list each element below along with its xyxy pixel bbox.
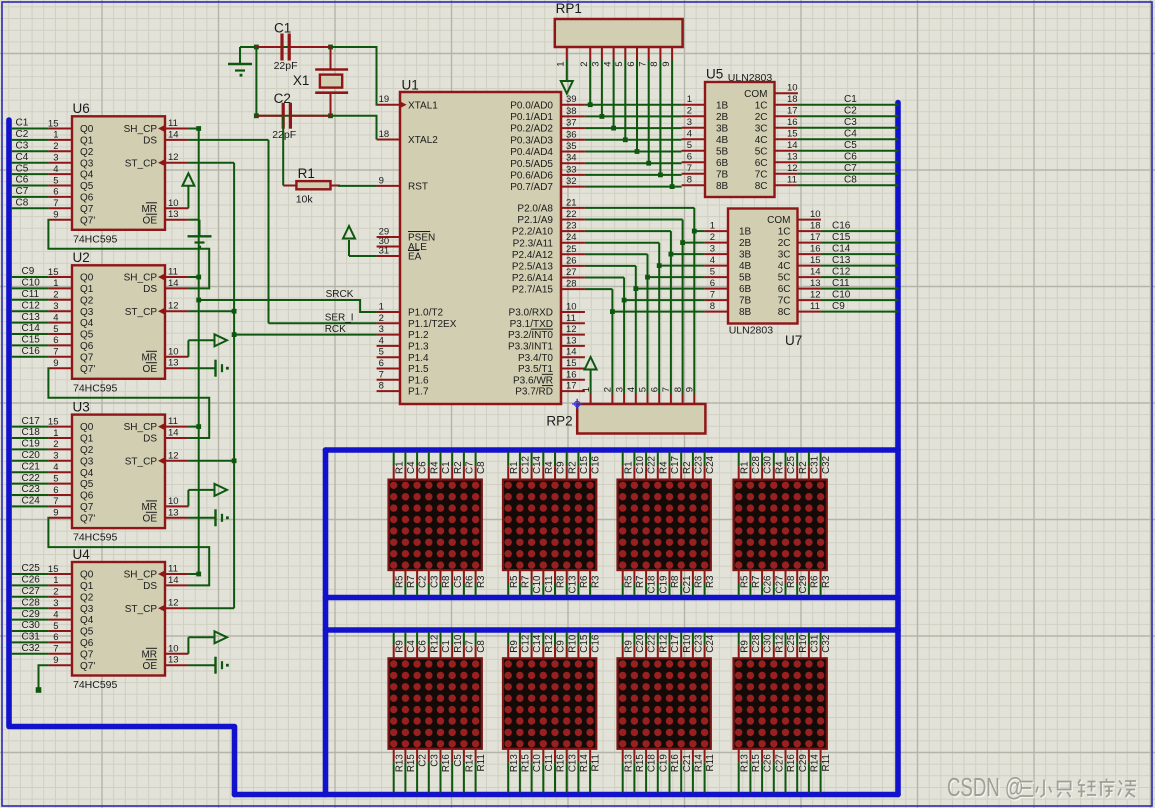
power arrow (VCC) at U2 MR (188, 334, 227, 357)
svg-text:C23: C23 (694, 455, 705, 474)
wire R5 bottom pin of DM1 (393, 570, 395, 595)
svg-text:MR: MR (141, 204, 157, 215)
svg-text:3: 3 (379, 324, 384, 335)
wire SER_I (U6 DS to U1 P1.1) (269, 322, 377, 324)
svg-text:R1: R1 (394, 461, 405, 474)
wire C17 top pin 5 of DM3 (669, 452, 671, 480)
wire C12 top pin 2 of DM6 (519, 632, 521, 658)
wire R1 to U1 RST pin9 (338, 185, 377, 187)
wire P2.1/A9 from U1 to RP2 vertical (585, 219, 683, 221)
svg-text:C22: C22 (647, 456, 658, 474)
wire R10 top pin 6 of DM6 (566, 632, 568, 658)
svg-text:C2: C2 (418, 576, 429, 589)
pin stub+number 18 (U7 1C) (798, 221, 821, 232)
svg-text:R9: R9 (509, 640, 520, 653)
svg-text:1B: 1B (716, 100, 729, 111)
svg-text:C9: C9 (22, 266, 35, 277)
svg-text:C11: C11 (22, 289, 40, 300)
svg-text:C22: C22 (647, 635, 658, 653)
watermark glyph 1 (1019, 782, 1034, 798)
svg-text:2B: 2B (716, 112, 729, 123)
wire RP1 pin2 vertical to P0.0 (589, 60, 591, 105)
pin stub+number 15 (U7 4C) (798, 255, 821, 266)
pin stub+number 37 (U1 P0.2) (561, 118, 585, 129)
wire RP2 pin8 vertical to P2.1 (682, 220, 684, 394)
wire C23 top pin 7 of DM3 (692, 452, 694, 480)
svg-text:C6: C6 (418, 461, 429, 474)
svg-text:R8: R8 (786, 575, 797, 588)
wire R16 bottom pin of DM7 (669, 749, 671, 793)
svg-text:P1.4: P1.4 (408, 353, 429, 364)
wire C31 top pin 7 of DM4 (808, 452, 810, 480)
svg-text:74HC595: 74HC595 (73, 382, 118, 394)
svg-text:C8: C8 (16, 198, 29, 209)
svg-text:17: 17 (810, 232, 821, 243)
svg-text:C6: C6 (16, 175, 29, 186)
wire C9 from U7 8C to right bus (821, 311, 896, 313)
svg-text:P0.3/AD3: P0.3/AD3 (510, 135, 553, 146)
svg-text:C28: C28 (22, 597, 41, 608)
svg-text:18: 18 (810, 221, 821, 232)
wire C5 from left bus to U6 pin 4 (12, 173, 72, 175)
pin stub+number 22 (U1 P2.1) (561, 209, 585, 220)
junction RP1 pin5 / P0.3 (623, 137, 628, 142)
svg-text:14: 14 (787, 140, 798, 151)
pin stub+number 8 (U7 8B) (705, 301, 728, 312)
LED dot matrix DM7 body (618, 658, 711, 749)
svg-text:Q7: Q7 (80, 502, 94, 513)
svg-text:4C: 4C (755, 135, 768, 146)
svg-text:11: 11 (168, 118, 178, 129)
wire C1 from U5 1C to right bus (798, 104, 896, 106)
svg-text:2: 2 (710, 232, 715, 243)
svg-text:MR: MR (141, 352, 157, 363)
svg-text:R8: R8 (441, 575, 452, 588)
svg-text:P1.6: P1.6 (408, 375, 429, 386)
wire U3 ST_CP to RCK vertical (188, 460, 234, 462)
ground at U4 OE (188, 657, 228, 674)
wire R13 bottom pin of DM5 (393, 749, 395, 793)
svg-text:C12: C12 (521, 635, 532, 653)
wire U4 Q7' stub end (39, 665, 49, 690)
svg-text:C10: C10 (635, 455, 646, 474)
pin stub+number 21 (U1 P2.0) (561, 197, 585, 208)
watermark glyph 6 (1118, 781, 1137, 799)
svg-text:14: 14 (168, 278, 179, 289)
wire R6 bottom pin of DM2 (577, 570, 579, 595)
svg-text:OE: OE (143, 215, 158, 226)
svg-text:Q7': Q7' (80, 661, 95, 672)
pin stub+number 33 (U1 P0.6) (561, 164, 585, 175)
wire C4 top pin 2 of DM1 (404, 452, 406, 480)
wire C24 top pin 8 of DM7 (704, 632, 706, 658)
svg-text:Q0: Q0 (80, 273, 94, 284)
wire C1-left to C2-left vertical (255, 47, 257, 116)
wire P0.0/AD0 from U1 to U5 1B (585, 104, 682, 106)
svg-text:Q1: Q1 (80, 136, 94, 147)
svg-text:74HC595: 74HC595 (73, 532, 118, 544)
pin stub+number 16 (U1 P3.6) (561, 369, 585, 380)
wire C24 top pin 8 of DM3 (704, 452, 706, 480)
wire U2 ST_CP to RCK vertical (188, 310, 234, 312)
svg-text:C24: C24 (705, 634, 716, 653)
wire C21 bottom pin of DM7 (680, 749, 682, 793)
svg-text:C32: C32 (821, 456, 832, 474)
pin stub+number 8 (RP1) (649, 47, 660, 67)
pin stub U6 pin 9 (49, 219, 72, 221)
svg-text:P2.0/A8: P2.0/A8 (517, 204, 553, 215)
pin stub+number 7 (U7 7B) (705, 290, 728, 301)
svg-text:XTAL2: XTAL2 (408, 135, 438, 146)
wire R11 bottom pin of DM7 (704, 749, 706, 793)
svg-text:15: 15 (48, 267, 59, 278)
svg-text:4: 4 (602, 62, 613, 67)
junction RP2 pin9 / U7 1B row (692, 229, 697, 234)
junction RP2 pin3 / U7 7B row (622, 298, 627, 303)
pin stub+number 17 (U1 P3.7) (561, 381, 585, 392)
wire C11 bottom pin of DM6 (542, 749, 544, 793)
svg-text:R16: R16 (441, 754, 452, 773)
pin stub+number 1 (RP2) (581, 387, 592, 404)
pin stub+number 15 (U1 P3.5) (561, 358, 585, 369)
svg-text:6: 6 (687, 152, 692, 163)
wire R9 top pin 1 of DM5 (393, 632, 395, 658)
svg-text:Q1: Q1 (80, 581, 94, 592)
wire C18 bottom pin of DM3 (645, 570, 647, 595)
svg-text:OE: OE (143, 661, 158, 672)
junction RP1 pin6 / P0.4 (635, 149, 640, 154)
wire C29 from left bus to U4 pin 4 (12, 619, 72, 621)
svg-text:R10: R10 (453, 634, 464, 653)
wire C30 top pin 3 of DM8 (761, 632, 763, 658)
pin stub+number 4 (U1 P1.3) (377, 335, 400, 346)
svg-text:3C: 3C (778, 250, 791, 261)
svg-text:74HC595: 74HC595 (73, 233, 118, 245)
svg-text:U3: U3 (73, 399, 90, 414)
power arrow (VCC) at U6 MR (182, 173, 194, 208)
svg-text:ST_CP: ST_CP (125, 604, 158, 615)
svg-text:15: 15 (787, 129, 798, 140)
svg-text:ULN2803: ULN2803 (728, 72, 773, 84)
svg-text:C11: C11 (832, 278, 850, 289)
svg-text:4: 4 (53, 312, 58, 323)
svg-text:7: 7 (379, 369, 384, 380)
svg-text:Q7: Q7 (80, 649, 94, 660)
pin stub+number 34 (U1 P0.5) (561, 153, 585, 164)
svg-text:C10: C10 (22, 278, 41, 289)
svg-text:7: 7 (638, 62, 649, 67)
wire RCK (ST_CP chain to U1 P1.2) (234, 334, 377, 336)
capacitor C1 (256, 34, 330, 61)
shift register U3 (74HC595) body (72, 415, 165, 528)
svg-text:7: 7 (53, 496, 58, 507)
pin stub+number 10 (U1 P3.0) (561, 302, 585, 313)
wire C21 from left bus to U3 pin 4 (12, 471, 72, 473)
svg-text:R16: R16 (556, 754, 567, 773)
wire C2 from U5 2C to right bus (798, 115, 896, 117)
svg-text:P2.6/A14: P2.6/A14 (512, 273, 554, 284)
wire U6 Q7' to U2 DS (cascade) (48, 220, 209, 289)
svg-text:R13: R13 (394, 754, 405, 773)
pin stub+number 38 (U1 P0.1) (561, 106, 585, 117)
svg-text:8: 8 (379, 381, 384, 392)
power arrow (VCC) at U3 MR (188, 484, 227, 507)
bus: bottom matrix block top edge (326, 627, 899, 633)
svg-text:C18: C18 (647, 575, 658, 594)
pin stub+number 10 (U7 COM) (798, 209, 821, 220)
svg-text:8C: 8C (778, 307, 791, 318)
svg-text:R16: R16 (670, 754, 681, 773)
wire P0.4/AD4 from U1 to U5 5B (585, 151, 682, 153)
svg-text:R4: R4 (429, 461, 440, 474)
svg-text:C23: C23 (22, 484, 41, 495)
wire R5 bottom pin of DM2 (507, 570, 509, 595)
svg-text:C18: C18 (647, 754, 658, 773)
svg-text:6: 6 (53, 187, 58, 198)
pin stub+number 6 (U7 6B) (705, 278, 728, 289)
pin stub+number 12 (U7 7C) (798, 290, 821, 301)
wire C7 from U5 7C to right bus (798, 173, 896, 175)
wire RP2 pin5 vertical to P2.4 (647, 254, 649, 393)
pin stub+number 14 (U4) (165, 575, 188, 586)
svg-text:R1: R1 (509, 461, 520, 474)
svg-text:7C: 7C (778, 296, 791, 307)
pin stub+number 18 (U5 1C) (775, 94, 798, 105)
svg-text:C26: C26 (763, 575, 774, 594)
svg-text:C25: C25 (786, 455, 797, 474)
svg-text:Q6: Q6 (80, 193, 94, 204)
wire R2 top pin 6 of DM3 (680, 452, 682, 480)
wire R11 bottom pin of DM6 (589, 749, 591, 793)
svg-text:9: 9 (661, 62, 672, 67)
wire R2 top pin 6 of DM4 (796, 452, 798, 480)
pin stub+number 17 (U7 2C) (798, 232, 821, 243)
svg-text:R14: R14 (579, 754, 590, 773)
svg-text:37: 37 (566, 118, 577, 129)
svg-text:32: 32 (566, 176, 577, 187)
svg-text:6: 6 (53, 335, 58, 346)
resistor pack RP2 body (577, 404, 705, 434)
svg-text:7: 7 (687, 163, 692, 174)
junction on RCK vertical at U2 (232, 309, 237, 314)
wire C15 from left bus to U2 pin 6 (12, 344, 72, 346)
svg-text:5: 5 (614, 62, 625, 67)
wire U6 SH_CP to SRCK vertical (188, 128, 198, 130)
pin stub+number 2 (RP1) (579, 47, 590, 67)
svg-text:C4: C4 (16, 152, 29, 163)
svg-text:5: 5 (53, 473, 58, 484)
svg-text:R1: R1 (739, 461, 750, 474)
wire C3 bottom pin of DM1 (428, 570, 430, 595)
svg-text:X1: X1 (293, 73, 310, 88)
svg-text:8: 8 (687, 175, 692, 186)
svg-text:12: 12 (566, 324, 577, 335)
wire C18 bottom pin of DM7 (645, 749, 647, 793)
svg-text:R10: R10 (682, 634, 693, 653)
wire U4 ST_CP to RCK vertical (188, 607, 234, 609)
wire C26 bottom pin of DM4 (761, 570, 763, 595)
svg-text:P3.4/T0: P3.4/T0 (518, 353, 553, 364)
svg-text:21: 21 (566, 197, 577, 208)
svg-text:Q0: Q0 (80, 422, 94, 433)
pin stub+number 3 (RP1) (591, 47, 602, 67)
svg-text:MR: MR (141, 502, 157, 513)
svg-text:38: 38 (566, 106, 577, 117)
junction RP2 pin4 / U7 6B row (633, 286, 638, 291)
junction RP1 pin4 / P0.2 (611, 126, 616, 131)
svg-text:13: 13 (168, 655, 179, 666)
bus: left column net bus (C1-C32 to shift registers) (9, 120, 235, 795)
svg-text:C25: C25 (22, 563, 41, 574)
wire R7 bottom pin of DM3 (633, 570, 635, 595)
svg-text:R9: R9 (623, 640, 634, 653)
power arrow (down) at RP1 pin 1 (561, 81, 573, 94)
driver U7 (ULN2803) body (728, 209, 798, 324)
svg-text:34: 34 (566, 153, 577, 164)
svg-text:Q0: Q0 (80, 124, 94, 135)
pin stub+number 29 (U1 left) (377, 227, 400, 238)
pin stub+number 13 (U6) (165, 209, 188, 220)
resistor R1 (283, 181, 340, 189)
wire R4 top pin 4 of DM2 (542, 452, 544, 480)
svg-text:C9: C9 (832, 301, 845, 312)
svg-text:P0.1/AD1: P0.1/AD1 (510, 112, 553, 123)
svg-text:C29: C29 (22, 609, 41, 620)
wire RP2 pin9 vertical to P2.0 (693, 208, 695, 393)
svg-text:14: 14 (810, 267, 821, 278)
pin stub+number 12 (U3) (165, 450, 188, 461)
svg-text:Q2: Q2 (80, 592, 94, 603)
svg-text:R15: R15 (751, 754, 762, 773)
wire C7 top pin 7 of DM5 (463, 632, 465, 658)
wire R16 bottom pin of DM5 (440, 749, 442, 793)
wire C6 top pin 3 of DM1 (416, 452, 418, 480)
svg-text:R15: R15 (406, 754, 417, 773)
pin stub+number 11 (U2) (165, 267, 188, 278)
wire C3 bottom pin of DM5 (428, 749, 430, 793)
svg-text:8C: 8C (755, 181, 768, 192)
svg-text:11: 11 (168, 416, 178, 427)
svg-text:10: 10 (566, 302, 577, 313)
wire R5 bottom pin of DM3 (622, 570, 624, 595)
wire C13 from U7 4C to right bus (821, 265, 896, 267)
wire C15 from U7 2C to right bus (821, 242, 896, 244)
svg-text:C10: C10 (532, 754, 543, 773)
svg-text:C10: C10 (832, 290, 851, 301)
wire C26 bottom pin of DM8 (761, 749, 763, 793)
terminal square at U4 Q7' wire end (36, 687, 42, 693)
svg-text:12: 12 (787, 163, 798, 174)
wire RP1 pin8 vertical to P0.6 (659, 60, 661, 175)
pin stub+number 2 (U5 2B) (682, 106, 705, 117)
shift register U2 (74HC595) body (72, 265, 165, 379)
wire RP2 pin3 vertical to P2.6 (623, 278, 625, 394)
svg-text:5: 5 (53, 175, 58, 186)
wire C12 from U7 5C to right bus (821, 276, 896, 278)
svg-text:1: 1 (710, 221, 715, 232)
svg-text:15: 15 (566, 358, 577, 369)
pin stub+number 2 (RP2) (603, 387, 614, 404)
svg-text:R3: R3 (821, 575, 832, 588)
wire C26 from left bus to U4 pin 1 (12, 584, 72, 586)
wire C14 from left bus to U2 pin 5 (12, 333, 72, 335)
wire RP2 pin4 vertical to P2.5 (635, 266, 637, 393)
wire R16 bottom pin of DM8 (785, 749, 787, 793)
pin stub+number 14 (U2) (165, 278, 188, 289)
power arrow (VCC) at RP2 pin 1 (585, 357, 597, 370)
svg-text:R4: R4 (774, 461, 785, 474)
wire C23 from left bus to U3 pin 6 (12, 494, 72, 496)
wire C25 from left bus to U4 pin 15 (12, 573, 72, 575)
svg-text:C31: C31 (810, 635, 821, 653)
pin stub+number 36 (U1 P0.3) (561, 129, 585, 140)
svg-text:SH_CP: SH_CP (124, 273, 158, 284)
svg-text:8B: 8B (739, 307, 752, 318)
crystal X1 (315, 47, 348, 116)
ground symbol at crystal circuit (228, 47, 252, 77)
wire P2.4/A12 from U1 to RP2 vertical (585, 253, 648, 255)
wire C11 bottom pin of DM2 (542, 570, 544, 595)
svg-text:C6: C6 (844, 152, 857, 163)
wire C20 from left bus to U3 pin 3 (12, 460, 72, 462)
svg-text:C2: C2 (16, 129, 29, 140)
ground at U3 OE (188, 509, 228, 526)
svg-text:C29: C29 (798, 576, 809, 594)
svg-text:3: 3 (53, 301, 58, 312)
wire R12 top pin 4 of DM7 (657, 632, 659, 658)
junction RP1 pin9 / P0.7 (670, 184, 675, 189)
pin stub U3 pin 9 (49, 517, 72, 519)
svg-text:3B: 3B (739, 250, 752, 261)
svg-text:C12: C12 (521, 456, 532, 474)
pin stub+number 13 (U1 P3.3) (561, 335, 585, 346)
svg-text:C6: C6 (418, 640, 429, 653)
svg-text:39: 39 (566, 94, 577, 105)
svg-text:C31: C31 (810, 456, 821, 474)
wire P0.5/AD5 from U1 to U5 6B (585, 162, 682, 164)
bus: matrix block left vertical (323, 450, 329, 795)
svg-text:3: 3 (53, 153, 58, 164)
pin stub+number 28 (U1 P2.7) (561, 279, 585, 290)
svg-text:C2: C2 (844, 106, 857, 117)
wire R14 bottom pin of DM6 (577, 749, 579, 793)
svg-text:ST_CP: ST_CP (125, 307, 158, 318)
svg-text:10k: 10k (296, 194, 314, 206)
svg-text:P0.0/AD0: P0.0/AD0 (510, 100, 553, 111)
svg-text:R2: R2 (682, 461, 693, 474)
svg-text:ST_CP: ST_CP (125, 456, 158, 467)
svg-text:R2: R2 (567, 461, 578, 474)
wire C16 top pin 8 of DM2 (589, 452, 591, 480)
pin stub+number 8 (U1 P1.7) (377, 381, 400, 392)
wire XTAL1 net (C1 row to U1 pin19) (256, 47, 376, 105)
svg-text:16: 16 (810, 244, 821, 255)
svg-text:P2.5/A13: P2.5/A13 (512, 262, 554, 273)
svg-text:6: 6 (626, 62, 637, 67)
svg-text:33: 33 (566, 164, 577, 175)
wire C13 bottom pin of DM2 (566, 570, 568, 595)
svg-text:C12: C12 (22, 300, 41, 311)
wire C17 top pin 5 of DM7 (669, 632, 671, 658)
shift register U6 (74HC595) body (72, 116, 165, 230)
wire C19 bottom pin of DM7 (657, 749, 659, 793)
pin stub+number 8 (RP2) (673, 387, 684, 404)
svg-text:1: 1 (53, 575, 58, 586)
svg-text:14: 14 (168, 575, 179, 586)
junction C1 left (254, 45, 259, 50)
svg-text:C25: C25 (786, 634, 797, 653)
svg-text:C12: C12 (832, 267, 851, 278)
